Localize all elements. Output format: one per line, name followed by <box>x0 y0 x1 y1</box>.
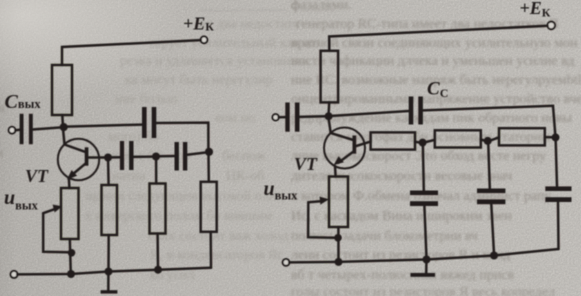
emitter resistor with tap (right) <box>329 177 348 228</box>
label u_vyh (right) <box>264 178 299 203</box>
capacitor shunt 2 (right) <box>477 189 505 205</box>
capacitor shunt 3 (right) <box>545 186 571 202</box>
wire: R1 bottom to ground rail <box>107 235 110 272</box>
label Cvyh <box>5 91 42 113</box>
svg-text:х инверского полож бо вившим: х инверского полож бо вившим <box>85 209 272 224</box>
capacitor shunt 1 (right) <box>410 191 438 207</box>
label VT (right) <box>294 154 318 174</box>
wire: base node down to R1 <box>107 161 110 185</box>
wire: Cc to right edge corner down to ladder node <box>423 106 555 134</box>
svg-text:VT: VT <box>25 166 49 186</box>
wire: Rc to ladder right node <box>545 136 552 139</box>
wire: wiper tail to emitter bottom (left) <box>43 213 67 252</box>
wire: input terminal to coupling cap <box>279 116 286 119</box>
node: emitter rail junction (right) <box>335 258 343 266</box>
wire: collector node to top feedback capacitor <box>67 125 142 127</box>
wire: node D down to shunt cap 2 <box>488 145 490 189</box>
resistor R2 (left ladder shunt) <box>150 184 166 234</box>
emitter resistor with tap (left) <box>61 188 79 239</box>
wire: right Rk bottom to collector node <box>327 102 330 112</box>
node B (left circuit) <box>152 153 160 161</box>
svg-text:дителя высокоскоростн весовые: дителя высокоскоростн весовые знач <box>291 169 512 184</box>
wire: R3 bottom to ground rail corner <box>209 232 212 268</box>
node: R1 ground rail junction <box>105 268 113 276</box>
capacitor Cc <box>409 97 423 125</box>
svg-text:Ис, с каскадом Вина и широким: Ис, с каскадом Вина и широким звен <box>291 209 512 224</box>
svg-text:иатиа: иатиа <box>112 169 146 184</box>
svg-text:и: и <box>0 146 4 161</box>
transistor VT (left): collector lead <box>63 131 85 152</box>
svg-text:генератор RC-типа имеет два не: генератор RC-типа имеет два недостатков … <box>296 17 559 32</box>
coupling capacitor (right input) <box>285 103 299 132</box>
terminal Cvyh output <box>9 127 16 134</box>
label +Ek (right) <box>520 0 551 20</box>
wire: +Ek terminal to Rk top <box>62 40 201 65</box>
wire: node A down to R3 <box>207 156 210 182</box>
resistor R1 (left ladder shunt) <box>102 185 118 235</box>
node A (left circuit, top of R3) <box>205 148 213 156</box>
svg-text:VT: VT <box>294 154 318 174</box>
wire: node B down to R2 <box>155 160 158 183</box>
label Cc <box>427 79 448 101</box>
node: wiper tap junction (left) <box>68 249 76 257</box>
resistor Rc (right ladder series) <box>499 128 545 145</box>
svg-text:вб т четырех-полюсника вяжед п: вб т четырех-полюсника вяжед присв <box>291 268 515 283</box>
node: emitter rail junction (left) <box>67 270 75 278</box>
node: base (left) <box>104 154 112 162</box>
node: R2 ground rail junction <box>154 266 162 274</box>
wire: shunt cap 1 to rail <box>424 206 426 256</box>
node C (right ladder) <box>419 139 427 147</box>
wire: ground rail (left) <box>17 268 211 275</box>
wire: wiper tail to emitter bottom (right) <box>308 202 334 238</box>
wire: C2 to node A <box>187 153 204 155</box>
wire: Ra to node C <box>415 141 419 144</box>
wire: node B to C2 <box>160 155 175 158</box>
terminal: bottom right circuit <box>283 259 290 266</box>
wire: Rk bottom to collector node <box>61 115 64 127</box>
transistor VT (right): emitter with arrow <box>334 152 354 177</box>
node: collector (right) <box>325 112 333 120</box>
wire: ladder right node down to shunt cap 3 <box>556 141 557 186</box>
terminal +Ek (left) <box>201 36 208 43</box>
transistor VT (left): emitter with arrow <box>67 164 86 188</box>
resistor R3 (left ladder shunt) <box>201 182 217 232</box>
svg-text:резка и удлиняется установивш: резка и удлиняется установивш <box>120 54 308 69</box>
wire: emitter resistor bottom to rail (right) <box>337 227 340 262</box>
node: shunt cap 2 rail junction <box>490 252 498 260</box>
wire: node C to Rb <box>426 140 435 142</box>
wire: emitter resistor bottom to rail (left) <box>70 239 71 274</box>
ground symbol (right) <box>411 263 436 277</box>
collector resistor (right Rk) <box>321 51 339 103</box>
svg-text:ских состоит важ холод: ских состоит важ холод <box>148 229 289 244</box>
terminal +Ek (right) <box>547 22 555 30</box>
transistor VT (left): circle <box>58 139 99 180</box>
label u_vyh (left) <box>4 187 39 213</box>
wire: shunt cap 2 to rail <box>491 204 494 252</box>
svg-text:ка могут быть нерегулир: ка могут быть нерегулир <box>125 73 273 88</box>
wire: base lead to Ra <box>356 142 370 146</box>
node: wiper tap junction (right) <box>334 234 342 242</box>
wire: R2 bottom to ground rail <box>156 234 159 270</box>
collector resistor (left Rk) <box>52 65 72 115</box>
svg-text:ности чафикации длчека и умень: ности чафикации длчека и уменьшен усилие… <box>291 54 574 69</box>
svg-text:редпринуждение каскадам пик об: редпринуждение каскадам пик обратного но… <box>291 111 573 126</box>
svg-text:щании следующем высокой плиц: щании следующем высокой плиц <box>85 189 284 204</box>
svg-text:вом но: вом но <box>215 111 255 126</box>
resistor Rb (right ladder series) <box>435 130 481 147</box>
label +Ek (left) <box>183 14 214 34</box>
capacitor C3 (top feedback, left circuit) <box>142 107 156 138</box>
wire: collector node to Cc <box>332 111 409 116</box>
wire: base lead (left) <box>88 156 104 159</box>
capacitor Cvyh <box>20 114 33 144</box>
wire: +Ek terminal to right Rk top <box>329 26 547 51</box>
wire: node C down to shunt cap 1 <box>422 146 425 190</box>
wire: terminal to Cvyh <box>15 129 19 132</box>
wire: Cvyh to collector node <box>33 128 60 130</box>
transistor VT (right): base bar <box>353 136 357 154</box>
resistor Ra (right ladder series) <box>371 132 415 149</box>
capacitor C2 (left ladder) <box>175 142 188 171</box>
wire: coupling cap to collector node <box>300 115 325 118</box>
node: collector (left) <box>60 123 68 131</box>
label VT (left) <box>25 166 49 186</box>
wire: node D to Rc <box>491 137 499 140</box>
wire: base node to C1 <box>112 156 120 159</box>
transistor VT (left): base bar <box>85 147 89 165</box>
svg-text:фазалями.: фазалями. <box>291 0 351 13</box>
wiper arrow (right) <box>308 197 329 205</box>
svg-text:вратной связи соединяющих усил: вратной связи соединяющих усилительную м… <box>291 36 578 51</box>
wire: C1 to node B <box>134 155 153 158</box>
svg-text:Я, я-конденсаторов Яг: Я, я-конденсаторов Яг <box>150 248 283 263</box>
node: shunt cap 1 rail junction <box>423 256 431 264</box>
wiper arrow (left) <box>43 205 62 214</box>
svg-text:беспож: беспож <box>222 149 266 164</box>
wire: Rb to node D <box>481 139 484 140</box>
terminal: right circuit input <box>272 114 278 120</box>
capacitor C1 (left ladder) <box>120 141 134 170</box>
svg-text:ние больш: ние больш <box>115 92 178 107</box>
wire: ground rail (right) <box>289 249 558 262</box>
wire: shunt cap 3 to rail corner <box>557 202 560 249</box>
ground symbol (left) <box>101 275 118 294</box>
wire: top capacitor to node A corner <box>156 123 208 149</box>
node: ladder right end <box>552 133 560 141</box>
svg-text:ЦК-об: ЦК-об <box>226 169 264 184</box>
terminal: bottom left <box>11 271 18 278</box>
node D (right ladder) <box>484 137 492 145</box>
transistor VT (right): circle <box>324 128 365 169</box>
transistor VT (right): collector lead <box>329 120 353 140</box>
svg-text:голы состоит из резисторов Я в: голы состоит из резисторов Я весь копред… <box>291 285 555 296</box>
